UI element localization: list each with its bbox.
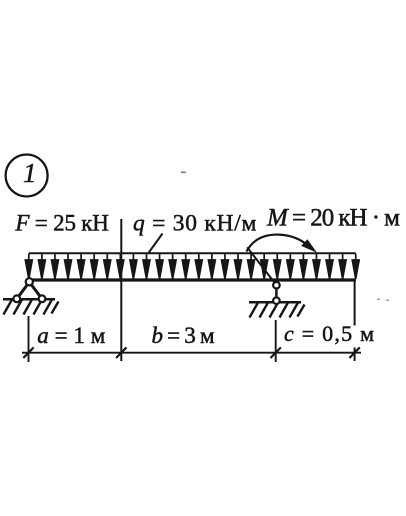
pin support hatching	[4, 300, 59, 315]
moment arrowhead	[301, 239, 317, 253]
svg-text:F = 25 кН: F = 25 кН	[14, 211, 109, 236]
svg-text:1: 1	[23, 158, 37, 188]
dimension tick at A	[23, 347, 33, 358]
pin support hinge circles	[13, 278, 45, 302]
svg-text:c = 0,5 м: c = 0,5 м	[284, 321, 374, 346]
svg-text:b = 3 м: b = 3 м	[152, 323, 215, 348]
beam	[27, 278, 357, 281]
extension line below support A	[28, 316, 30, 362]
distributed load top line	[29, 252, 356, 254]
svg-text:M = 20 кН · м: M = 20 кН · м	[266, 205, 400, 232]
pin support A (triangle with pins)	[17, 282, 42, 299]
roller hatching	[250, 303, 305, 318]
leader line from q label to load line	[149, 234, 163, 253]
small scan specks	[181, 172, 186, 174]
extension line at beam right end lower part	[354, 348, 356, 362]
extension line below support C	[275, 320, 277, 362]
dimension tick at F point	[116, 347, 126, 358]
moment curved arrow	[247, 235, 310, 252]
roller ground line	[249, 301, 301, 304]
force F line of action / extension line at a-b boundary	[120, 219, 122, 361]
circled task number 1	[6, 155, 48, 197]
extension line at beam right end	[354, 282, 356, 326]
dimension tick at C	[271, 347, 281, 358]
dimension line	[22, 352, 361, 354]
roller (link) support C	[275, 281, 278, 301]
roller hinge circles	[273, 282, 280, 304]
distributed load arrows	[25, 254, 359, 279]
dimension tick at right end	[349, 347, 359, 358]
svg-text:q = 30 кН/м: q = 30 кН/м	[133, 210, 257, 236]
moment leader to application point	[247, 247, 275, 284]
svg-text:a = 1 м: a = 1 м	[37, 323, 105, 348]
pin support ground line	[3, 298, 55, 301]
